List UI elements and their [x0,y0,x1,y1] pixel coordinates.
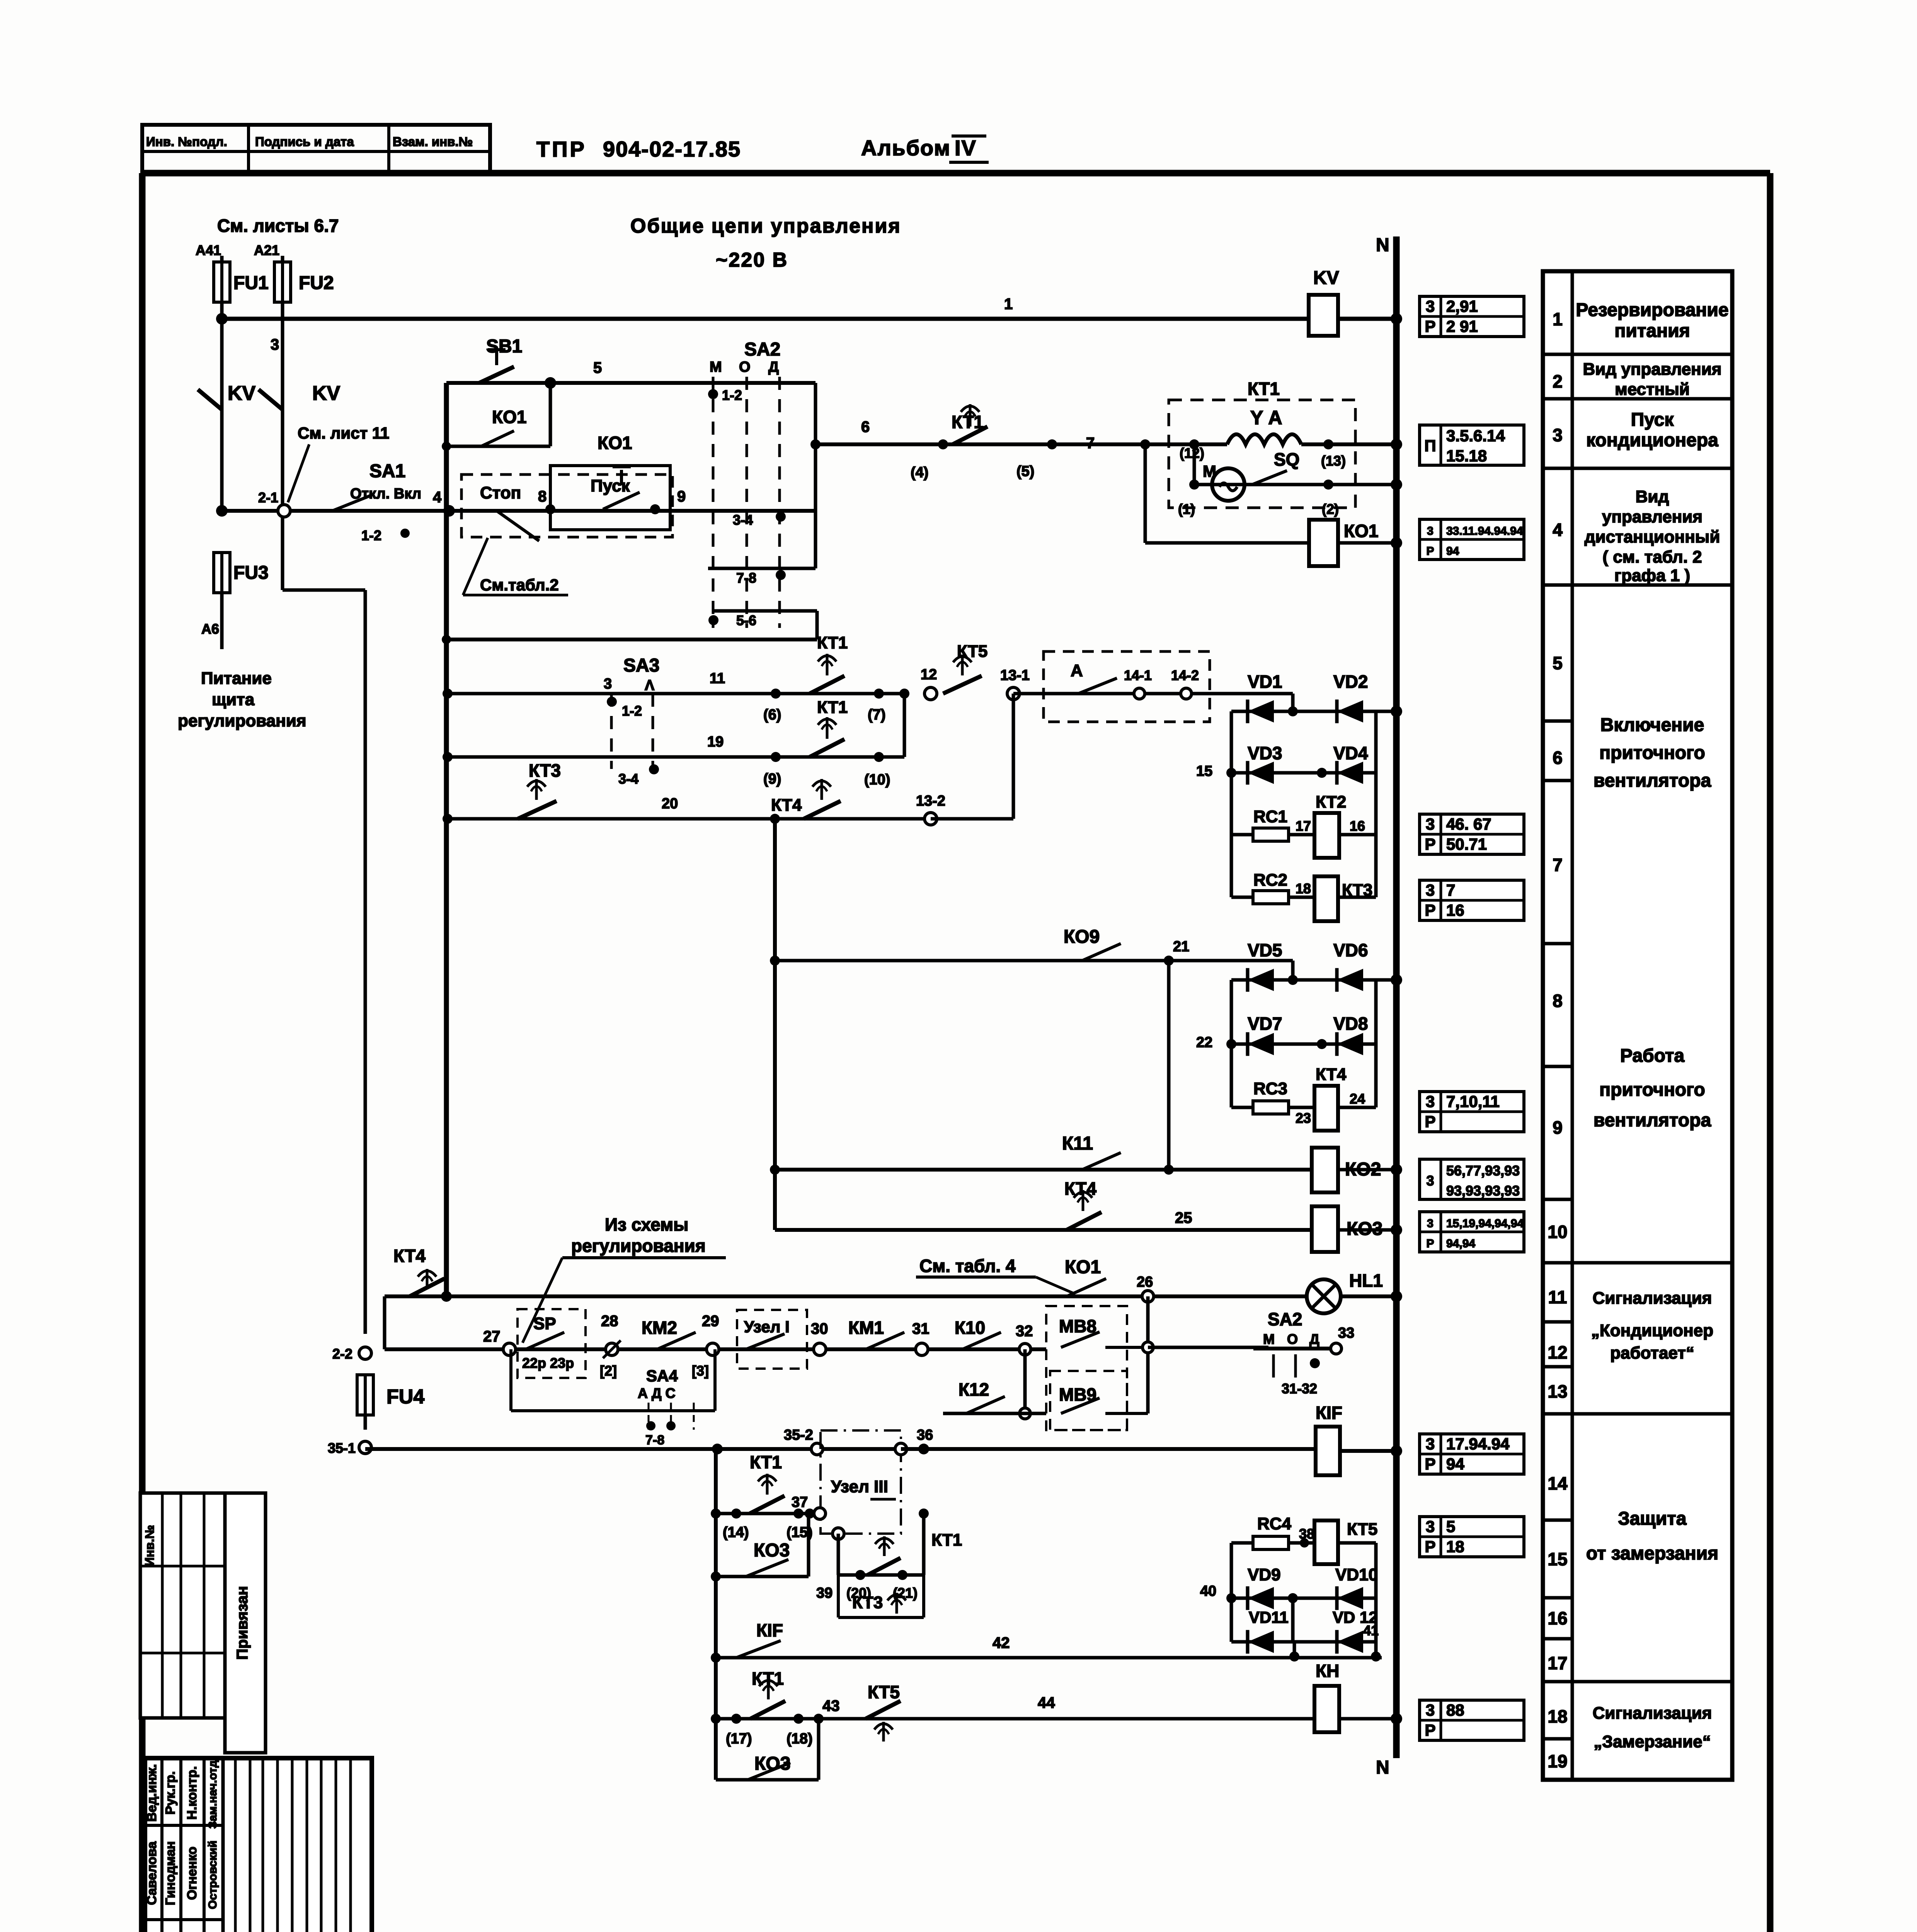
svg-text:6: 6 [861,418,870,435]
svg-text:КТ2: КТ2 [1316,793,1346,811]
svg-text:9: 9 [1553,1117,1563,1138]
svg-text:18: 18 [1548,1706,1567,1726]
svg-text:RC2: RC2 [1253,871,1287,889]
svg-text:(14): (14) [723,1524,749,1541]
svg-text:3: 3 [1426,1173,1434,1189]
svg-text:3: 3 [1427,525,1433,537]
svg-text:4: 4 [1553,520,1563,540]
svg-text:25: 25 [1175,1209,1192,1226]
svg-text:13: 13 [1548,1381,1567,1401]
svg-text:18: 18 [1296,881,1311,896]
svg-text:(5): (5) [1016,463,1034,480]
svg-text:35-1: 35-1 [328,1440,356,1456]
svg-text:RC1: RC1 [1253,807,1287,826]
svg-text:SA2: SA2 [744,339,780,360]
svg-text:14-2: 14-2 [1171,667,1199,683]
svg-text:27: 27 [483,1328,501,1345]
svg-text:7: 7 [1553,855,1563,875]
svg-text:3-4: 3-4 [618,771,638,787]
svg-text:11: 11 [1548,1287,1567,1307]
svg-text:43: 43 [822,1697,840,1714]
svg-text:SA4: SA4 [646,1367,678,1385]
svg-text:Вид управления: Вид управления [1583,360,1722,379]
svg-text:8: 8 [538,488,546,505]
svg-text:FU3: FU3 [233,563,269,583]
svg-text:Включение: Включение [1600,715,1704,735]
svg-text:HL1: HL1 [1349,1270,1383,1291]
svg-text:приточного: приточного [1599,1080,1705,1100]
svg-text:6: 6 [1553,748,1563,768]
svg-text:КТ1: КТ1 [817,633,848,652]
svg-text:КМ1: КМ1 [848,1318,884,1338]
svg-text:VD9: VD9 [1248,1565,1281,1584]
svg-text:19: 19 [1548,1751,1567,1771]
svg-text:(13): (13) [1321,453,1346,469]
svg-text:О: О [739,359,751,375]
svg-text:Λ: Λ [645,677,655,694]
svg-text:35-2: 35-2 [784,1427,813,1443]
svg-text:„Кондиционер: „Кондиционер [1591,1321,1713,1340]
svg-text:31-32: 31-32 [1282,1381,1317,1396]
svg-text:40: 40 [1200,1583,1216,1599]
svg-text:1-2: 1-2 [622,703,642,719]
svg-text:КО1: КО1 [1344,521,1378,541]
svg-text:А21: А21 [254,242,279,258]
svg-text:RC3: RC3 [1253,1079,1287,1098]
svg-text:Инв. №подл.: Инв. №подл. [146,134,227,149]
svg-text:Н.контр.: Н.контр. [185,1766,199,1820]
svg-text:К11: К11 [1062,1133,1093,1154]
svg-text:15: 15 [1196,763,1212,779]
svg-text:1: 1 [1004,296,1013,313]
svg-text:41: 41 [1363,1622,1379,1638]
svg-text:3: 3 [1426,881,1435,899]
svg-text:31: 31 [912,1320,930,1337]
svg-text:(2): (2) [1322,501,1339,517]
svg-text:46. 67: 46. 67 [1446,815,1491,833]
svg-text:КН: КН [1316,1661,1339,1681]
svg-text:7-8: 7-8 [736,570,756,586]
svg-text:SB1: SB1 [486,336,522,357]
svg-text:14-1: 14-1 [1124,667,1152,683]
svg-text:[3]: [3] [692,1363,709,1379]
svg-text:3: 3 [271,336,279,353]
svg-text:50.71: 50.71 [1446,835,1487,853]
svg-text:Зам.нач.отд: Зам.нач.отд [206,1760,219,1829]
svg-text:работает“: работает“ [1610,1344,1694,1362]
svg-text:VD8: VD8 [1333,1014,1368,1034]
svg-text:16: 16 [1350,818,1365,834]
svg-text:См. табл. 4: См. табл. 4 [919,1256,1016,1276]
svg-text:(4): (4) [911,464,928,481]
svg-text:1-2: 1-2 [361,527,381,543]
svg-text:Савелова: Савелова [145,1841,159,1905]
svg-text:3: 3 [1426,297,1435,315]
svg-text:3: 3 [1553,425,1563,445]
svg-text:Гинодман: Гинодман [163,1841,178,1905]
svg-text:Стоп: Стоп [480,483,521,502]
svg-text:КО1: КО1 [492,407,526,427]
svg-text:VD6: VD6 [1333,940,1368,960]
svg-text:КТ3: КТ3 [529,760,561,781]
svg-text:39: 39 [816,1585,833,1601]
svg-text:КТ1: КТ1 [817,698,848,717]
svg-text:12: 12 [1548,1342,1567,1362]
svg-text:17: 17 [1296,818,1311,834]
svg-text:FU2: FU2 [299,273,334,293]
svg-text:Р: Р [1425,901,1435,919]
svg-text:[2]: [2] [600,1363,617,1379]
svg-text:Взам. инв.№: Взам. инв.№ [393,134,473,149]
svg-text:7-8: 7-8 [645,1433,664,1447]
svg-text:А6: А6 [201,621,219,637]
svg-text:11: 11 [710,670,725,687]
svg-text:VD5: VD5 [1248,940,1282,960]
svg-text:КМ2: КМ2 [642,1318,677,1338]
svg-text:Р: Р [1426,545,1434,558]
svg-text:местный: местный [1615,380,1690,399]
svg-text:22: 22 [1196,1034,1212,1051]
svg-text:30: 30 [811,1320,828,1337]
svg-text:Из схемы: Из схемы [605,1214,688,1235]
svg-text:(10): (10) [864,772,890,788]
svg-text:5: 5 [1446,1517,1455,1536]
svg-text:33.11.94.94.94: 33.11.94.94.94 [1446,525,1523,537]
svg-text:42: 42 [993,1634,1010,1651]
svg-text:16: 16 [1446,901,1464,919]
svg-text:Y А: Y А [1250,407,1282,429]
svg-text:Р: Р [1425,835,1435,853]
svg-text:15,19,94,94,94: 15,19,94,94,94 [1446,1217,1524,1230]
svg-text:26: 26 [1137,1274,1153,1290]
svg-text:Д: Д [1309,1331,1319,1347]
svg-text:ТПР: ТПР [536,137,587,161]
svg-text:2: 2 [1553,371,1563,391]
svg-text:Инв.№: Инв.№ [143,1525,157,1566]
svg-text:20: 20 [662,796,678,812]
svg-text:13-1: 13-1 [1000,667,1030,684]
svg-text:КТ4: КТ4 [1316,1065,1347,1084]
svg-text:КО9: КО9 [1064,927,1100,947]
svg-text:SP: SP [533,1314,556,1333]
svg-text:88: 88 [1446,1701,1464,1719]
svg-text:графа 1 ): графа 1 ) [1614,566,1690,585]
svg-text:3: 3 [1426,1092,1435,1111]
svg-text:КТ1: КТ1 [931,1531,962,1549]
svg-text:15.18: 15.18 [1446,447,1487,465]
svg-text:RC4: RC4 [1257,1514,1292,1533]
svg-text:Резервирование: Резервирование [1576,300,1728,320]
svg-text:18: 18 [1446,1537,1464,1556]
svg-text:VD4: VD4 [1333,743,1368,763]
svg-text:33: 33 [1338,1325,1354,1341]
svg-text:3: 3 [1426,815,1435,833]
svg-text:Работа: Работа [1620,1046,1684,1066]
svg-text:КО3: КО3 [754,1540,790,1561]
svg-text:Р: Р [1425,1537,1435,1556]
svg-text:КТ1: КТ1 [750,1452,782,1472]
svg-text:П: П [1424,437,1436,455]
svg-text:А Д С: А Д С [638,1385,676,1401]
svg-text:2-1: 2-1 [258,490,278,505]
svg-text:КТ5: КТ5 [1347,1520,1377,1539]
svg-text:Пуск: Пуск [591,476,630,495]
svg-text:КIF: КIF [756,1620,783,1640]
svg-text:Р: Р [1425,1721,1435,1739]
svg-text:КТ3: КТ3 [852,1593,883,1612]
svg-text:„Замерзание“: „Замерзание“ [1594,1732,1711,1751]
svg-text:KV: KV [228,382,256,405]
svg-text:См.табл.2: См.табл.2 [480,576,559,594]
svg-text:N: N [1376,235,1389,255]
svg-text:32: 32 [1016,1323,1033,1340]
svg-text:9: 9 [677,488,686,505]
svg-text:дистанционный: дистанционный [1585,527,1720,546]
svg-text:(6): (6) [763,707,781,723]
svg-text:Питание: Питание [201,669,272,688]
svg-text:KV: KV [1313,268,1339,288]
svg-text:КТ5: КТ5 [957,642,987,661]
svg-text:Узел III: Узел III [831,1477,888,1496]
svg-text:3: 3 [1426,1701,1435,1719]
svg-text:О: О [1287,1331,1298,1347]
svg-text:13-2: 13-2 [916,793,945,809]
svg-text:3: 3 [604,676,612,692]
svg-text:5: 5 [1553,653,1563,673]
svg-text:7: 7 [1086,435,1095,452]
svg-text:3-4: 3-4 [733,512,753,528]
svg-text:А: А [1071,661,1083,680]
svg-text:М: М [710,359,722,375]
svg-text:от замерзания: от замерзания [1586,1543,1718,1564]
svg-text:17.94.94: 17.94.94 [1446,1435,1510,1453]
svg-text:SA2: SA2 [1268,1309,1302,1329]
svg-text:Защита: Защита [1618,1509,1687,1529]
svg-text:К12: К12 [958,1379,989,1400]
svg-text:29: 29 [702,1313,719,1330]
svg-text:94: 94 [1446,545,1459,558]
svg-text:Огненко: Огненко [185,1847,199,1900]
svg-text:3: 3 [1426,1435,1435,1453]
svg-text:Пуск: Пуск [1631,410,1674,430]
svg-text:Узел I: Узел I [955,1929,1009,1932]
svg-text:(17): (17) [726,1731,752,1747]
svg-text:Д: Д [768,359,779,375]
svg-text:вентилятора: вентилятора [1594,770,1711,791]
svg-text:FU1: FU1 [233,273,269,293]
svg-text:23: 23 [1296,1110,1311,1126]
svg-text:Р: Р [1425,1455,1435,1473]
svg-text:(1): (1) [1178,501,1195,517]
svg-text:КТ4: КТ4 [393,1246,426,1266]
svg-text:28: 28 [601,1313,618,1330]
svg-text:3: 3 [1427,1217,1433,1230]
svg-text:КТ1: КТ1 [1248,379,1280,399]
svg-text:8: 8 [1553,991,1563,1011]
svg-text:VD3: VD3 [1248,743,1282,763]
svg-text:управления: управления [1602,507,1702,526]
svg-text:КО1: КО1 [1065,1257,1101,1277]
svg-text:( см. табл. 2: ( см. табл. 2 [1602,548,1702,566]
svg-text:VD10: VD10 [1335,1565,1378,1584]
svg-text:Общие цепи управления: Общие цепи управления [630,215,901,237]
svg-text:КО1: КО1 [598,433,632,453]
svg-text:4: 4 [433,489,442,506]
svg-text:SA3: SA3 [623,655,659,676]
svg-text:44: 44 [1038,1694,1055,1711]
svg-text:КIF: КIF [1316,1403,1342,1423]
svg-text:56,77,93,93: 56,77,93,93 [1446,1163,1520,1179]
svg-text:(9): (9) [763,771,781,787]
svg-text:5: 5 [593,359,602,376]
svg-text:KV: KV [312,382,340,405]
svg-text:VD11: VD11 [1249,1608,1289,1626]
svg-text:3: 3 [1426,1517,1435,1536]
svg-text:КТ5: КТ5 [868,1682,900,1702]
svg-text:(7): (7) [868,707,885,723]
svg-text:1-2: 1-2 [722,387,742,403]
svg-text:SA1: SA1 [369,461,405,481]
svg-text:5-6: 5-6 [736,612,756,628]
svg-text:Р: Р [1425,317,1435,335]
svg-text:19: 19 [707,734,724,750]
svg-text:12: 12 [921,667,937,683]
svg-text:Р: Р [1426,1237,1434,1250]
svg-text:2,91: 2,91 [1446,297,1478,315]
svg-text:93,93,93,93: 93,93,93,93 [1446,1183,1520,1199]
svg-text:904-02-17.85: 904-02-17.85 [603,137,741,161]
svg-text:Вед.инж.: Вед.инж. [145,1764,159,1821]
svg-text:МВ8: МВ8 [1059,1316,1096,1336]
svg-text:А41: А41 [196,242,221,258]
svg-text:Рук.гр.: Рук.гр. [163,1771,178,1815]
svg-text:Р: Р [1425,1112,1435,1131]
svg-text:КТ4: КТ4 [771,796,802,815]
svg-text:регулирования: регулирования [571,1236,706,1256]
svg-text:питания: питания [1614,321,1690,341]
svg-text:21: 21 [1173,939,1189,955]
svg-text:24: 24 [1350,1091,1365,1107]
svg-text:15: 15 [1548,1549,1567,1569]
svg-text:Вид: Вид [1636,487,1669,506]
svg-text:36: 36 [917,1427,933,1443]
svg-text:VD2: VD2 [1333,672,1368,692]
svg-text:14: 14 [1548,1473,1568,1493]
svg-text:2 91: 2 91 [1446,317,1478,335]
svg-text:17: 17 [1548,1653,1567,1673]
svg-text:VD7: VD7 [1248,1014,1282,1034]
svg-text:22р 23р: 22р 23р [522,1355,574,1371]
svg-text:2-2: 2-2 [332,1346,352,1362]
svg-text:М: М [1263,1331,1275,1347]
svg-text:регулирования: регулирования [178,711,306,730]
svg-text:94: 94 [1446,1455,1464,1473]
svg-text:37: 37 [792,1494,808,1510]
svg-text:~220 В: ~220 В [716,249,788,271]
svg-text:приточного: приточного [1599,743,1705,763]
svg-text:1: 1 [1553,309,1563,329]
svg-text:Сигнализация: Сигнализация [1593,1289,1712,1308]
svg-text:К10: К10 [955,1318,985,1338]
svg-text:Островский: Островский [206,1840,219,1909]
svg-text:Привязан: Привязан [234,1586,251,1660]
svg-text:7: 7 [1446,881,1455,899]
svg-text:Сигнализация: Сигнализация [1593,1704,1712,1723]
svg-text:(18): (18) [787,1731,813,1747]
svg-text:VD1: VD1 [1248,672,1282,692]
svg-text:FU4: FU4 [386,1386,424,1408]
svg-text:16: 16 [1548,1608,1567,1628]
svg-text:3.5.6.14: 3.5.6.14 [1446,427,1505,445]
svg-text:Подпись и дата: Подпись и дата [255,134,354,149]
svg-text:SQ: SQ [1274,449,1299,469]
svg-text:Альбом: Альбом [861,136,951,160]
svg-text:вентилятора: вентилятора [1594,1110,1711,1131]
svg-text:10: 10 [1548,1222,1567,1242]
svg-text:94,94: 94,94 [1446,1237,1475,1250]
svg-text:щита: щита [212,690,255,709]
svg-text:См. лист 11: См. лист 11 [298,424,389,442]
svg-text:IV: IV [955,136,977,160]
svg-text:N: N [1376,1757,1389,1778]
svg-text:7,10,11: 7,10,11 [1446,1092,1500,1111]
svg-text:См. листы 6.7: См. листы 6.7 [217,216,339,236]
svg-text:кондиционера: кондиционера [1586,430,1718,451]
